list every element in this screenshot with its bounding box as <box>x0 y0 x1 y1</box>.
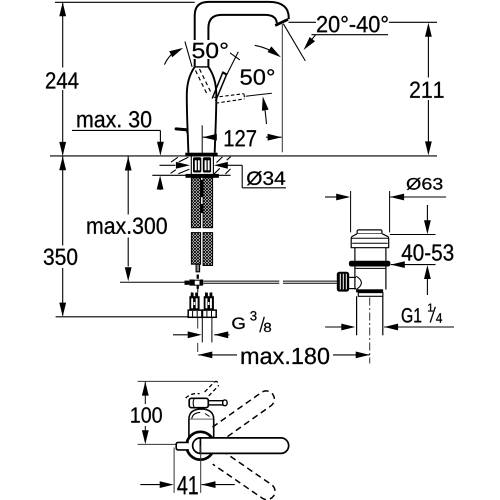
pop-up rod knurled knob <box>337 272 349 292</box>
faucet base plate on deck <box>185 153 217 156</box>
top view: dashed raised lever <box>186 381 219 398</box>
reference line at hose ends <box>56 316 189 318</box>
mounting washer under deck (bold) <box>186 174 219 178</box>
rod coupling blocks <box>185 280 204 286</box>
dimension 211 <box>425 23 432 156</box>
label 20-40 degrees with leader <box>289 16 438 50</box>
dimension max.180 <box>198 348 369 365</box>
top view: lever base <box>189 398 208 407</box>
angle arc arrow (lever 50deg) <box>164 51 176 65</box>
countertop deck: bottom line <box>152 174 230 176</box>
top view: dashed swivel spout (lower position) <box>213 451 278 500</box>
top view: centerline below circle <box>200 446 202 493</box>
label 100 <box>131 407 162 423</box>
pop-up drain: body below ring <box>355 267 386 290</box>
angle arc arrow lower (to open lever line) <box>263 100 266 124</box>
label Ø63 with leader arrows <box>325 178 446 201</box>
pop-up drain: upper flange <box>351 234 389 248</box>
lever handle (up position, solid) <box>212 72 227 101</box>
top view: lever rod with end cap <box>208 400 227 406</box>
label Ø34 <box>247 171 285 185</box>
label 41 <box>177 476 197 494</box>
label 127 <box>225 130 256 146</box>
flexible connection hoses (crosshatched) <box>191 178 212 266</box>
top view: side outlet tab <box>176 442 189 450</box>
pop-up drain: black seal ring <box>349 261 391 267</box>
label G1 1/4 with arrows <box>325 304 454 331</box>
pop-up drain: body above ring <box>355 248 386 261</box>
lever handle (open position, dashed) <box>214 94 245 104</box>
top view: dashed swivel spout (upper position) <box>212 388 277 441</box>
pop-up rod visible between hoses <box>201 180 203 213</box>
hidden cartridge dashed lines inside body <box>196 71 207 94</box>
spout tip vertical extension line <box>281 24 283 152</box>
drain collar nut <box>358 293 383 297</box>
open lever axis extension line <box>246 93 272 96</box>
dimension 100 <box>142 382 149 445</box>
label 350 <box>44 249 77 266</box>
dimension 40-53 <box>390 205 454 295</box>
drain flange diameter extension lines <box>350 191 352 232</box>
G3/8 thread stub extension lines <box>202 318 212 343</box>
label 211 <box>410 82 443 98</box>
label 50 degrees (open lever) <box>241 69 275 85</box>
threaded shank between deck lines <box>191 156 213 174</box>
angle arc arrow upper (to vertical ref) <box>255 45 279 55</box>
lever axis extension with cross tick <box>227 52 240 75</box>
deck section hatching right <box>214 157 231 174</box>
top view: swivel bearing circle (bold) <box>187 432 215 460</box>
deck section hatching left <box>171 157 190 173</box>
horizontal pop-up rod: left segment <box>120 281 185 283</box>
dimension Ø34 arrows and stepped leader <box>160 162 287 188</box>
faucet body (tapered) <box>187 67 217 153</box>
label max.300 <box>87 218 166 235</box>
G3/8 hose end connectors <box>188 292 202 317</box>
faucet centerline below connectors <box>197 318 199 352</box>
top view: spout arm (solid) <box>200 438 288 454</box>
label 50 degrees (lever) <box>190 40 230 59</box>
dimension 127 <box>202 125 281 156</box>
faucet spout (high arc, outline) <box>195 2 289 67</box>
knob to body connector <box>349 276 361 289</box>
label 244 <box>46 72 78 88</box>
drain body bottom edge (bold) <box>356 289 383 292</box>
dimension max.300 vertical line with arrows <box>125 157 132 282</box>
dimension 41 <box>140 448 235 493</box>
spout aerator outlet (bold angled end line) <box>275 19 288 25</box>
pop-up drain: plug lip <box>357 230 382 234</box>
top view: reference line of lever reach <box>138 380 214 382</box>
top view: faucet body <box>189 409 214 438</box>
angle leg line (lever angle) <box>185 42 192 67</box>
label G 3/8 with arrows <box>173 311 271 338</box>
aerator angle leg line <box>283 24 305 61</box>
horizontal pop-up rod: right segment (to drain) with break <box>203 281 337 283</box>
dimension 244 vertical line with arrows <box>59 2 66 156</box>
dimension 350 vertical line with arrows <box>59 156 66 316</box>
countertop deck: top surface line <box>50 155 437 157</box>
body joint line <box>195 66 209 68</box>
label max. 30 with leader <box>72 111 164 190</box>
faucet front view: top reference line (spout top) <box>55 1 195 3</box>
hose connection blocks in shank <box>193 157 211 172</box>
top view: reference line at spout axis <box>138 443 177 445</box>
drain tailpipe G1 1/4 <box>357 296 383 335</box>
top view: spout arm left cap arc <box>193 438 201 454</box>
drain centerline <box>369 298 371 364</box>
vertical pop-up rod below faucet <box>196 264 200 292</box>
pop-up rod knob at rear of body <box>176 129 188 137</box>
